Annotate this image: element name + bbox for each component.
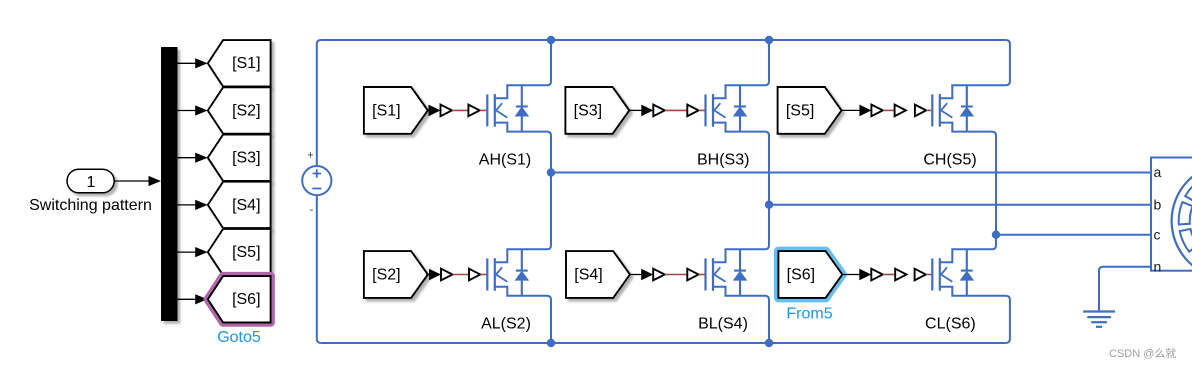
svg-text:[S6]: [S6] — [232, 291, 260, 308]
svg-text:a: a — [1154, 164, 1162, 180]
svg-text:BH(S3): BH(S3) — [697, 151, 749, 168]
svg-text:[S2]: [S2] — [232, 102, 260, 119]
svg-text:[S3]: [S3] — [232, 150, 260, 167]
svg-text:[S5]: [S5] — [786, 102, 814, 119]
svg-text:-: - — [310, 204, 314, 216]
svg-text:+: + — [307, 150, 313, 162]
svg-text:[S2]: [S2] — [372, 266, 400, 283]
svg-text:[S4]: [S4] — [574, 266, 602, 283]
svg-text:1: 1 — [87, 174, 96, 191]
svg-text:Switching pattern: Switching pattern — [29, 197, 152, 214]
svg-text:From5: From5 — [786, 306, 832, 323]
svg-text:[S3]: [S3] — [574, 102, 602, 119]
svg-text:[S6]: [S6] — [787, 266, 815, 283]
svg-text:CH(S5): CH(S5) — [923, 151, 976, 168]
svg-text:[S5]: [S5] — [232, 244, 260, 261]
svg-text:CL(S6): CL(S6) — [925, 316, 976, 333]
svg-text:Goto5: Goto5 — [217, 329, 261, 346]
svg-text:[S4]: [S4] — [232, 197, 260, 214]
svg-text:n: n — [1154, 258, 1162, 274]
svg-text:b: b — [1154, 196, 1162, 212]
svg-text:AL(S2): AL(S2) — [481, 316, 531, 333]
svg-text:AH(S1): AH(S1) — [479, 151, 531, 168]
svg-text:CSDN @么就: CSDN @么就 — [1109, 346, 1176, 360]
svg-text:[S1]: [S1] — [232, 55, 260, 72]
svg-text:BL(S4): BL(S4) — [698, 316, 748, 333]
svg-text:c: c — [1154, 226, 1161, 242]
svg-text:[S1]: [S1] — [372, 102, 400, 119]
